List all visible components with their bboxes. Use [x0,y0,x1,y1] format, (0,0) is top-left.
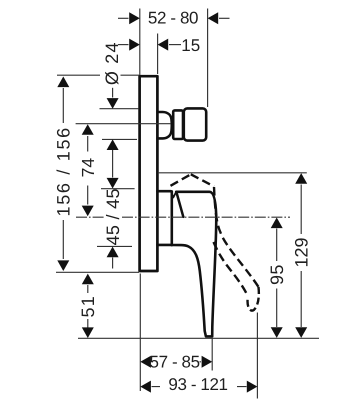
arrow 57-85 left [140,356,151,368]
arrow 93-121 left [140,381,151,393]
knob end cap [184,108,206,140]
arrow 45/45 upper down [107,178,119,189]
arrow 51 top [82,274,94,285]
dim Ø24 tail [112,88,114,98]
arrow 156/156 bottom [57,260,69,271]
arrow 129 bottom [295,327,307,338]
arrow 74 top [82,124,94,135]
dim 57-85 line [152,361,202,363]
dim 52-80 tails [118,17,129,19]
lever left diagonal [176,192,183,217]
ext line plate bottom going left [56,271,139,273]
arrow 15 right [158,39,169,51]
arrow 95 top [271,218,283,229]
svg-text:93 - 121: 93 - 121 [168,375,227,394]
ext line 45/45 lower [97,245,132,247]
dim 95 line [276,229,278,328]
dim 129 line [300,185,302,328]
arrow 51 bottom [82,327,94,338]
svg-text:Ø 24: Ø 24 [102,41,122,85]
handle hub right edge (neck) [171,191,174,245]
arrow 45/45 lower up [107,247,119,258]
ext line above plate front [157,34,159,75]
dashed rise from hub [171,174,191,186]
lever handle dashed (up position) [171,174,259,310]
arrow 15 left [129,39,140,51]
svg-text:156 / 156: 156 / 156 [53,126,73,216]
svg-text:57 - 85: 57 - 85 [150,352,200,371]
arrow 57-85 right [202,356,213,368]
handle hub top edge [157,190,170,193]
center line handle axis [76,216,290,218]
handle hub bottom edge [157,244,171,247]
dim 15 tails [118,44,129,46]
dashed gentle top edge [191,174,214,186]
arrow O24 up (below knob) [107,139,119,150]
dim 45/45 lower tail [112,258,114,269]
dim between-arrow line 139-188 [112,150,114,178]
lever handle (down position) outline [172,192,216,337]
svg-text:95: 95 [267,264,287,285]
svg-text:45 / 45: 45 / 45 [103,188,123,245]
svg-text:129: 129 [292,237,312,267]
ext line knob cap end vertical [207,9,209,108]
arrow 52-80 right [208,12,219,24]
dashed inner left edge [214,242,248,296]
dimension labels [53,9,311,394]
ext line knob cap bottom [102,138,137,140]
ext line below dashed tip [256,313,258,399]
ext line knob cap top [100,108,139,110]
svg-text:51: 51 [78,295,98,317]
svg-text:74: 74 [78,158,98,178]
ext line 45/45 upper [101,188,135,190]
arrow 74 bottom [82,206,94,217]
dim 74 line [87,136,89,205]
dim 156/156 line [62,88,64,259]
arrow 156/156 top [57,77,69,88]
arrow O24 down [107,98,119,109]
wall plate (escutcheon side view) [140,76,158,271]
knob ring [173,110,183,139]
arrow 93-121 right [247,381,258,393]
ext line below plate left [139,274,141,392]
dim 93-121 line [152,386,247,388]
arrow 52-80 left [129,12,140,24]
arrow 129 top [295,173,307,184]
arrowheads [57,12,307,392]
ext line dashed-lever top [158,172,307,174]
dim 51 line [87,285,89,328]
ext line plate top going left [57,74,139,76]
ext line top left vertical [139,9,141,76]
handle hub notch [171,191,176,197]
dashed outer right edge [214,187,259,287]
center line knob axis [76,123,171,125]
ext line bottom reference [78,337,319,339]
arrow 95 bottom [271,327,283,338]
dashed tip hook [248,287,259,311]
knob dome at plate [158,112,172,138]
svg-text:15: 15 [181,36,200,55]
ext line below lever tip [211,339,213,371]
svg-text:52 - 80: 52 - 80 [148,9,198,28]
